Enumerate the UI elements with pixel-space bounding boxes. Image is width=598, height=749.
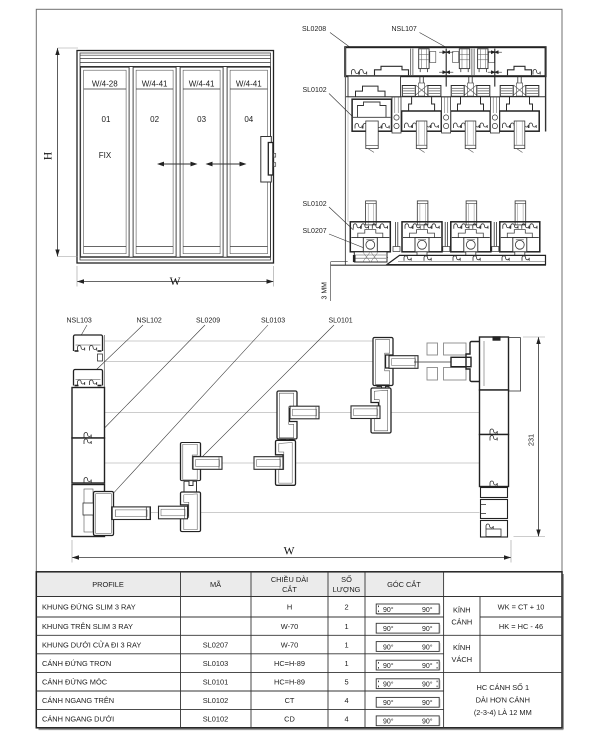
svg-text:W: W [284, 546, 295, 558]
svg-text:90°: 90° [383, 718, 394, 726]
svg-text:NSL102: NSL102 [137, 318, 162, 325]
header fill [37, 573, 444, 597]
NSL107 fin 2 [488, 49, 502, 87]
sash1 glass bar [112, 507, 150, 520]
svg-text:KÍNH: KÍNH [453, 643, 471, 652]
label SL0101 [192, 318, 353, 467]
bay3 hat profile [508, 66, 541, 75]
kinh vach cell [452, 643, 473, 664]
bottom rail lines [80, 256, 271, 258]
floor line [331, 264, 546, 266]
svg-text:H: H [43, 152, 55, 160]
svg-text:HK = HC - 46: HK = HC - 46 [499, 622, 543, 631]
top unit 3 [451, 76, 491, 152]
column C lower glass bar [254, 457, 283, 470]
NSL107 fin 1 [439, 49, 453, 87]
angle box row5 [376, 679, 440, 689]
svg-text:CÁNH ĐỨNG TRƠN: CÁNH ĐỨNG TRƠN [42, 659, 111, 668]
svg-text:SL0102: SL0102 [203, 714, 228, 723]
kinh canh cell [451, 606, 472, 627]
svg-text:5: 5 [344, 677, 348, 686]
svg-text:W: W [170, 276, 181, 288]
table column lines [181, 572, 481, 728]
column C upper hook [277, 391, 297, 439]
receiver brush rect bottom [427, 368, 438, 381]
column D upper hook [373, 338, 393, 386]
left jamb box SL0209 lower [72, 438, 105, 483]
label SL0207 [303, 228, 389, 258]
svg-text:DÀI HƠN CÁNH: DÀI HƠN CÁNH [476, 696, 530, 705]
svg-text:90°: 90° [422, 606, 433, 614]
panel labels W/4 [92, 79, 262, 88]
right wall [545, 47, 547, 132]
svg-text:04: 04 [244, 115, 253, 124]
head track lines [80, 55, 271, 66]
svg-text:HC=H-89: HC=H-89 [274, 677, 305, 686]
column B lower hook [181, 492, 201, 532]
svg-text:KÍNH: KÍNH [453, 606, 471, 615]
bay1 hat profile [352, 66, 409, 75]
column C lower hook [276, 440, 296, 485]
handle [261, 137, 276, 183]
svg-text:W-70: W-70 [281, 640, 299, 649]
label NSL103 [67, 318, 92, 339]
receiver clamp dark [451, 357, 471, 366]
svg-text:90°: 90° [422, 718, 433, 726]
right jamb thin box [481, 488, 508, 498]
column C upper glass bar [290, 406, 319, 419]
angle box row3 [376, 642, 440, 652]
svg-text:NSL107: NSL107 [392, 26, 417, 33]
right jamb box 3 [480, 435, 509, 487]
svg-text:2: 2 [344, 603, 348, 612]
svg-text:GÓC CẮT: GÓC CẮT [387, 580, 421, 589]
svg-text:FIX: FIX [99, 151, 112, 160]
svg-text:SL0208: SL0208 [302, 26, 326, 33]
svg-text:W/4-41: W/4-41 [142, 79, 168, 88]
column B upper glass bar [193, 457, 222, 470]
label SL0208 [302, 26, 365, 58]
svg-text:3 MM: 3 MM [322, 282, 329, 300]
svg-text:4: 4 [344, 696, 348, 705]
svg-text:03: 03 [197, 115, 206, 124]
panel 04 [227, 67, 270, 257]
slide arrow 2 [206, 162, 247, 167]
svg-text:90°: 90° [383, 643, 394, 651]
header texts [92, 574, 421, 594]
svg-text:SL0102: SL0102 [303, 201, 327, 208]
svg-text:SL0209: SL0209 [196, 318, 220, 325]
left jamb bottom box [72, 485, 105, 537]
svg-text:90°: 90° [383, 625, 394, 633]
ma column texts [203, 640, 228, 723]
svg-text:SL0101: SL0101 [203, 677, 228, 686]
svg-text:01: 01 [102, 115, 111, 124]
svg-text:90°: 90° [383, 606, 394, 614]
panel 01 [81, 67, 130, 257]
svg-text:KHUNG DƯỚI CỬA ĐI 3 RAY: KHUNG DƯỚI CỬA ĐI 3 RAY [42, 640, 141, 649]
slide arrow 1 [157, 162, 198, 167]
svg-text:231: 231 [527, 434, 536, 446]
dim W elevation [77, 266, 274, 288]
right jamb bottom box [481, 521, 508, 538]
right jamb top tube [480, 336, 521, 391]
track bed line [346, 96, 546, 98]
svg-text:90°: 90° [422, 643, 433, 651]
svg-text:90°: 90° [422, 699, 433, 707]
svg-text:SỐ: SỐ [341, 574, 352, 584]
svg-text:HC CÁNH SỐ 1: HC CÁNH SỐ 1 [477, 682, 530, 692]
label SL0102 top [303, 87, 354, 117]
sill SL0207 [387, 255, 546, 264]
svg-text:SL0103: SL0103 [261, 318, 285, 325]
column D hook joint [377, 387, 390, 398]
bottom unit 4 [500, 201, 540, 256]
svg-text:SL0101: SL0101 [329, 318, 353, 325]
dim W plan [72, 540, 511, 563]
left jamb clip [98, 354, 103, 361]
svg-text:CẮT: CẮT [282, 585, 297, 594]
receiver brush rect top [427, 343, 438, 355]
head clips [430, 52, 495, 63]
svg-text:1: 1 [344, 659, 348, 668]
svg-text:1: 1 [344, 622, 348, 631]
label SL0103 [109, 318, 285, 498]
label SL0102 bottom [303, 201, 354, 230]
bottom fixed unit 1 [350, 201, 390, 262]
column B hook joint [184, 481, 197, 492]
svg-text:SL0207: SL0207 [203, 640, 228, 649]
glass line row3 [105, 462, 480, 464]
svg-text:90°: 90° [383, 699, 394, 707]
svg-text:SL0207: SL0207 [303, 228, 327, 235]
svg-text:KHUNG ĐỨNG SLIM 3 RAY: KHUNG ĐỨNG SLIM 3 RAY [42, 603, 136, 612]
top interlock 2 [442, 97, 451, 133]
svg-text:90°: 90° [422, 662, 433, 670]
left jamb face line [103, 335, 105, 537]
svg-text:SL0102: SL0102 [303, 87, 327, 94]
svg-text:H: H [287, 603, 292, 612]
top unit 4 [500, 76, 540, 152]
svg-text:90°: 90° [422, 625, 433, 633]
svg-text:CD: CD [284, 714, 295, 723]
svg-text:90°: 90° [383, 681, 394, 689]
svg-text:90°: 90° [422, 681, 433, 689]
sill bottom level line [331, 261, 348, 263]
svg-text:MÃ: MÃ [210, 580, 221, 589]
angle box row2 [376, 623, 440, 633]
svg-text:VÁCH: VÁCH [452, 655, 473, 664]
fixed glass line to receiver [414, 361, 452, 363]
column D lower hook [371, 388, 391, 433]
head ladder channels [419, 49, 429, 72]
svg-text:CÁNH ĐỨNG MÓC: CÁNH ĐỨNG MÓC [42, 677, 108, 686]
head bay divider 1 [411, 49, 413, 75]
svg-text:90°: 90° [383, 662, 394, 670]
svg-text:1: 1 [344, 640, 348, 649]
panel 02 [133, 67, 176, 257]
svg-text:SL0102: SL0102 [203, 696, 228, 705]
dim H [43, 48, 79, 257]
bottom unit 2 [402, 201, 442, 256]
left wall [345, 47, 348, 265]
angle box row7 [376, 716, 440, 726]
svg-text:CT: CT [285, 696, 295, 705]
svg-text:W/4-41: W/4-41 [189, 79, 215, 88]
column C hook joint [281, 440, 294, 449]
column D lower glass bar [351, 406, 380, 419]
glass line row2 [105, 412, 480, 414]
table outer border [36, 572, 562, 728]
top interlock 1 [392, 97, 401, 133]
glass line row4 [105, 512, 480, 514]
svg-text:NSL103: NSL103 [67, 318, 92, 325]
hc note cell [474, 682, 532, 717]
dim 231 [514, 337, 546, 537]
fixed top unit 1 [352, 99, 391, 152]
column B lower glass bar [159, 506, 188, 519]
head channel SL0208 outer [345, 47, 545, 76]
left jamb box SL0209 upper [72, 388, 105, 439]
angle box row4 [376, 660, 440, 670]
right jamb box 4 [481, 500, 508, 519]
svg-text:PROFILE: PROFILE [92, 580, 124, 589]
head bay divider 2 [472, 49, 474, 75]
svg-text:CÁNH NGANG DƯỚI: CÁNH NGANG DƯỚI [42, 714, 114, 723]
glass line row1a [105, 340, 373, 342]
left jamb NSL103 [74, 335, 103, 351]
svg-text:4: 4 [344, 714, 348, 723]
sash1 SL0103 plain stile [94, 492, 114, 536]
svg-text:LƯỢNG: LƯỢNG [333, 585, 361, 594]
angle box row1 [376, 604, 440, 614]
right jamb box 2 [480, 390, 509, 435]
svg-text:W-70: W-70 [281, 622, 299, 631]
profile column texts [42, 603, 141, 724]
bottom unit 3 [451, 201, 491, 256]
label NSL102 [96, 318, 162, 370]
svg-text:KHUNG TRÊN SLIM 3 RAY: KHUNG TRÊN SLIM 3 RAY [42, 622, 133, 631]
head channel lower flange block [348, 76, 401, 97]
svg-text:W/4-41: W/4-41 [236, 79, 262, 88]
panel numbers [102, 115, 254, 124]
svg-text:HC=H-89: HC=H-89 [274, 659, 305, 668]
svg-text:(2-3-4) LÀ 12 MM: (2-3-4) LÀ 12 MM [474, 708, 532, 717]
cut length column texts [274, 603, 305, 724]
table shadow [39, 574, 564, 729]
angle boxes [376, 604, 440, 726]
label SL0209 [105, 318, 221, 428]
top interlock 3 [490, 97, 499, 133]
quantity column texts [344, 603, 348, 724]
door outer frame [77, 51, 274, 264]
top unit 2 [402, 76, 442, 152]
svg-text:CÁNH: CÁNH [451, 618, 472, 627]
table row lines [36, 597, 562, 710]
svg-text:WK = CT + 10: WK = CT + 10 [498, 603, 545, 612]
left jamb NSL102 [74, 370, 103, 386]
svg-text:02: 02 [150, 115, 159, 124]
svg-text:SL0103: SL0103 [203, 659, 228, 668]
svg-text:CÁNH NGANG TRÊN: CÁNH NGANG TRÊN [42, 696, 114, 705]
svg-text:CHIỀU DÀI: CHIỀU DÀI [271, 574, 308, 584]
panel 03 [180, 67, 223, 257]
bottom interlock fins [393, 222, 499, 252]
column B upper hook SL0101 [181, 443, 201, 481]
receiver C profile [466, 342, 480, 382]
dim 3 MM [322, 262, 331, 301]
label NSL107 [392, 26, 446, 47]
glass line row1b [105, 361, 373, 363]
column D upper glass bar [389, 356, 418, 369]
svg-text:W/4-28: W/4-28 [92, 79, 118, 88]
angle box row6 [376, 697, 440, 707]
